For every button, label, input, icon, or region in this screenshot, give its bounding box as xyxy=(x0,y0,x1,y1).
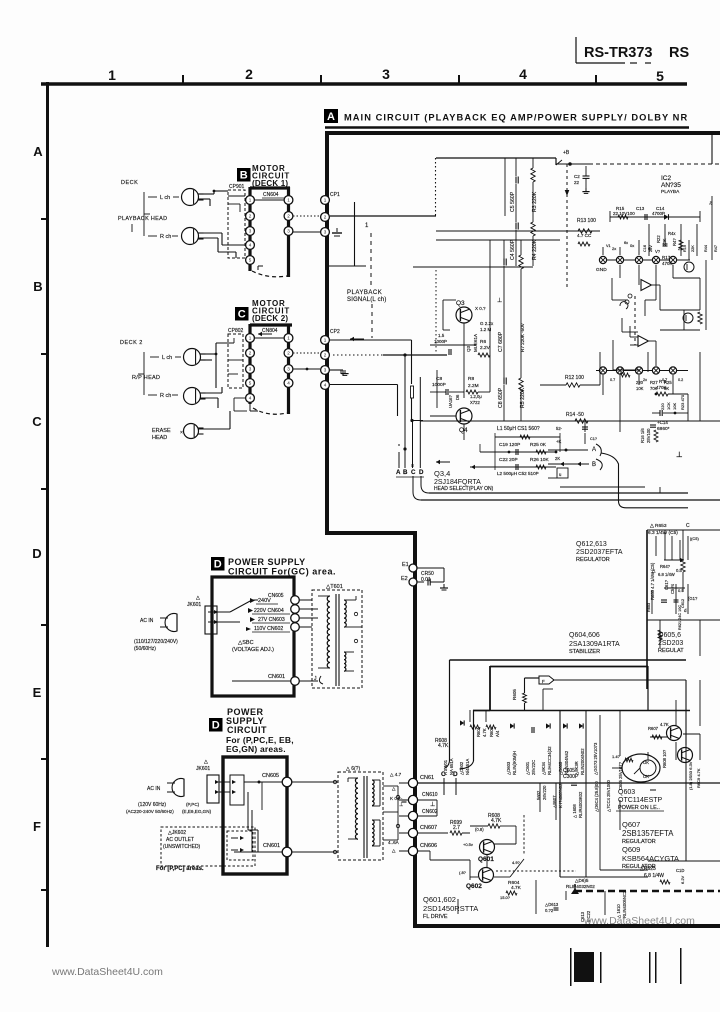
frame tick E-F xyxy=(41,758,47,760)
svg-text:C: C xyxy=(411,469,416,476)
svg-text:C: C xyxy=(32,414,42,429)
svg-text:2K: 2K xyxy=(555,456,560,461)
wire CN604-CP1 dashed xyxy=(293,215,320,217)
svg-text:22K: 22K xyxy=(662,238,667,246)
inductor L1 label xyxy=(497,426,540,432)
svg-text:L1 50μH CS1 560?: L1 50μH CS1 560? xyxy=(497,426,540,432)
svg-text:R12 100: R12 100 xyxy=(565,375,584,381)
svg-text:×: × xyxy=(180,430,183,436)
playback head R deck1 xyxy=(182,228,204,245)
wire CP1-eq run xyxy=(330,215,436,217)
svg-text:Q601: Q601 xyxy=(478,856,494,863)
svg-text:1.5: 1.5 xyxy=(438,333,445,338)
svg-text:E2: E2 xyxy=(401,576,408,582)
connector CP901 pin 2 xyxy=(246,212,255,221)
connector CN804 pin 3 xyxy=(284,365,293,374)
wire C4R4 rails xyxy=(516,216,533,266)
grid letter D xyxy=(32,546,41,561)
wire CP2 pin2 run xyxy=(383,353,447,356)
wire Q3 net xyxy=(430,300,476,352)
svg-text:2: 2 xyxy=(287,351,290,356)
main circuit box outline xyxy=(327,133,720,926)
frame tick A-B xyxy=(41,218,47,220)
grid number 2 xyxy=(245,66,253,82)
barcode square xyxy=(574,952,594,982)
wire eq right vert xyxy=(555,158,557,165)
wire reg verts xyxy=(600,666,648,870)
svg-text:R16 1/6: R16 1/6 xyxy=(640,428,645,443)
svg-text:Q605,6: Q605,6 xyxy=(658,632,681,639)
svg-text:OK: OK xyxy=(643,760,649,765)
frame tick B-C xyxy=(41,353,47,355)
connector CN804 pin 1 xyxy=(284,334,293,343)
wire CN607 run xyxy=(417,832,448,834)
svg-text:CIRCUIT For(GC) area.: CIRCUIT For(GC) area. xyxy=(228,567,336,577)
wire IC2 top net xyxy=(610,211,700,222)
svg-text:R653: R653 xyxy=(647,603,651,612)
wire bottom Q4 drops xyxy=(582,352,700,444)
connector CN606 xyxy=(399,843,437,856)
svg-text:3: 3 xyxy=(324,230,327,235)
border frame top ruler xyxy=(41,82,687,85)
svg-text:10K: 10K xyxy=(672,403,677,410)
connector CP901 outline xyxy=(228,184,245,258)
power supply D2 title xyxy=(226,707,294,754)
svg-text:R64?: R64? xyxy=(660,564,671,569)
D1 taps xyxy=(246,598,255,631)
connector CN604 D1 xyxy=(291,605,300,614)
svg-text:220V CN604: 220V CN604 xyxy=(254,608,284,614)
connector CN604 pin 3 xyxy=(284,227,293,236)
svg-text:D: D xyxy=(419,469,424,476)
svg-text:3: 3 xyxy=(324,368,327,373)
wire power run3 xyxy=(553,680,686,745)
connector CP2 pin 1 xyxy=(321,336,330,345)
svg-text:CP901: CP901 xyxy=(229,184,245,190)
capacitor C605 label xyxy=(563,760,579,800)
wire CN601 D1 xyxy=(232,680,291,682)
T601 J-hook xyxy=(314,676,323,684)
svg-text:3: 3 xyxy=(382,66,390,82)
svg-text:AC IN: AC IN xyxy=(147,786,161,792)
svg-text:△D613: △D613 xyxy=(545,902,559,907)
capacitor C8b xyxy=(498,378,506,409)
svg-text:B: B xyxy=(240,170,248,182)
connector CP2 pin 4 xyxy=(321,381,330,390)
Q607 group label xyxy=(622,820,679,870)
svg-text:R6: R6 xyxy=(480,339,486,345)
connector CP802 pin 1 xyxy=(246,334,255,343)
connector CN607 xyxy=(399,825,437,838)
op-amp U2 xyxy=(638,336,656,347)
svg-text:+0.5v: +0.5v xyxy=(463,842,473,847)
wire CP2 dotted run xyxy=(333,354,383,356)
svg-text:C8: C8 xyxy=(436,376,442,382)
svg-text:27V CN603: 27V CN603 xyxy=(258,617,285,623)
svg-text:1: 1 xyxy=(108,67,116,83)
component labels Q3 bias xyxy=(466,306,494,352)
wire power run2 xyxy=(490,666,648,710)
wire CN61 run xyxy=(417,782,720,784)
playback head L deck1 xyxy=(182,189,204,206)
power supply D1 frame xyxy=(212,577,294,696)
D2 inner wires xyxy=(248,782,262,852)
deck2 text RP HEAD xyxy=(132,375,160,381)
svg-text:K I?4005N02: K I?4005N02 xyxy=(558,783,563,808)
svg-text:4.7 CC: 4.7 CC xyxy=(577,233,592,238)
svg-text:SIGNAL(L ch): SIGNAL(L ch) xyxy=(347,297,387,303)
svg-text:(1.8) 2SB3 6.3V: (1.8) 2SB3 6.3V xyxy=(688,761,693,790)
svg-text:6x: 6x xyxy=(624,241,628,245)
svg-text:+K: +K xyxy=(556,439,561,444)
svg-text:CN601: CN601 xyxy=(263,843,280,849)
svg-text:EG,GN) areas.: EG,GN) areas. xyxy=(226,744,286,754)
svg-text:C7 680P: C7 680P xyxy=(498,331,504,352)
IC2 pin row wire xyxy=(600,259,690,261)
svg-text:2: 2 xyxy=(249,351,252,356)
dashed vert opamp xyxy=(625,294,635,345)
svg-text:C5?4: C5?4 xyxy=(670,583,675,594)
wire deck1 to pins xyxy=(218,196,245,258)
svg-text:E: E xyxy=(33,685,42,700)
connector CP802 pin 5 xyxy=(246,379,255,388)
svg-text:22: 22 xyxy=(574,180,580,185)
barcode bar 4 xyxy=(655,952,657,983)
transistor Q4 xyxy=(456,408,472,424)
svg-text:E1: E1 xyxy=(402,562,409,568)
svg-text:R25: R25 xyxy=(664,380,672,385)
svg-text:1: 1 xyxy=(324,338,327,343)
svg-text:6.8 1/4W: 6.8 1/4W xyxy=(658,572,675,577)
svg-text:4: 4 xyxy=(287,381,290,386)
transformer T601 primary xyxy=(318,596,330,668)
svg-text:△ 4.7: △ 4.7 xyxy=(390,772,402,777)
node plus-B xyxy=(556,150,570,165)
connector CP1 label xyxy=(330,192,340,198)
svg-text:△ R653: △ R653 xyxy=(650,523,667,529)
IC2 pin 1 xyxy=(599,256,606,263)
svg-text:R8: R8 xyxy=(468,376,474,382)
wire deck2 pins xyxy=(228,338,247,411)
svg-text:C8 650P: C8 650P xyxy=(498,387,504,408)
resistor R5 xyxy=(519,378,526,408)
svg-text:V1: V1 xyxy=(606,244,611,248)
arrow into CP2 xyxy=(350,337,364,342)
svg-text:Q3: Q3 xyxy=(466,345,471,352)
transformer T601 dashed box xyxy=(312,584,362,688)
svg-text:Q603: Q603 xyxy=(618,789,635,796)
svg-text:(G1?: (G1? xyxy=(688,596,698,601)
svg-text:0.2: 0.2 xyxy=(678,378,683,382)
deck2 text ERASE HEAD xyxy=(152,428,171,441)
svg-text:CN605: CN605 xyxy=(268,593,284,599)
svg-text:1000P: 1000P xyxy=(434,339,447,344)
transistor Q602 xyxy=(466,868,494,891)
wire CP2 pin3 stub xyxy=(330,370,343,376)
svg-text:1: 1 xyxy=(249,336,252,341)
resistor R699 xyxy=(450,820,470,835)
right edge vert 2 xyxy=(705,260,707,330)
svg-text:A: A xyxy=(592,447,596,453)
motor circuit B frame xyxy=(250,187,290,277)
connector CP901 pin 3 xyxy=(246,227,255,236)
svg-text:POWER ON LE..: POWER ON LE.. xyxy=(618,805,660,811)
connector CN604 pin 1 xyxy=(284,196,293,205)
svg-text:R605: R605 xyxy=(512,689,517,700)
svg-text:(UNSWITCHED): (UNSWITCHED) xyxy=(163,844,201,850)
component labels mid cluster xyxy=(536,761,623,818)
svg-text:C2: C2 xyxy=(574,174,580,179)
head select bus A xyxy=(398,444,400,468)
svg-text:△D603: △D603 xyxy=(506,761,511,775)
svg-text:3: 3 xyxy=(287,229,290,234)
erase head deck2 xyxy=(180,424,204,439)
svg-text:RS: RS xyxy=(669,45,689,61)
resistor R14 xyxy=(566,412,588,423)
connector CN804 pin 4 xyxy=(284,379,293,388)
wire CN601-T2 xyxy=(292,850,338,853)
svg-text:C16: C16 xyxy=(643,245,647,252)
barcode bar 5 xyxy=(680,948,682,984)
IC2 row2 pin 1 xyxy=(599,367,606,374)
svg-text:220: 220 xyxy=(660,403,665,410)
component D6 labels xyxy=(448,394,482,408)
resistor R3 xyxy=(531,168,538,212)
power supply D2 label box xyxy=(209,718,223,732)
svg-text:2SA1309A1RTA: 2SA1309A1RTA xyxy=(569,641,620,648)
svg-text:N/4651A: N/4651A xyxy=(465,758,470,775)
wire C7R7 rails xyxy=(504,240,521,300)
resistor R625 xyxy=(640,866,685,884)
wire eq second vert xyxy=(355,202,370,266)
capacitor C6 cluster xyxy=(434,333,451,355)
svg-text:1.2,0μ: 1.2,0μ xyxy=(470,394,482,399)
wire CN602 run xyxy=(417,800,437,816)
svg-text:G 2.2x: G 2.2x xyxy=(480,321,494,326)
playback signal label xyxy=(347,290,387,303)
wire C5R3 rails xyxy=(505,158,533,216)
svg-text:B: B xyxy=(592,462,596,468)
capacitor C21 +B xyxy=(574,166,590,193)
AC IN voltage D2 xyxy=(126,802,212,814)
svg-text:RLIN4005NC2: RLIN4005NC2 xyxy=(622,890,627,918)
wire pins drops xyxy=(603,240,682,300)
T601 right stubs xyxy=(354,596,362,643)
svg-text:C22 20P: C22 20P xyxy=(499,457,518,463)
svg-text:CN601: CN601 xyxy=(268,674,285,680)
svg-text:0.5: 0.5 xyxy=(678,588,684,593)
bottom small cluster xyxy=(458,878,627,922)
svg-text:D: D xyxy=(214,559,222,571)
deck2 text L ch xyxy=(150,355,181,361)
svg-text:110V CN602: 110V CN602 xyxy=(254,626,283,632)
power supply D1 label box xyxy=(211,557,225,571)
resistor R604 xyxy=(500,880,522,900)
head select bus labels xyxy=(396,469,424,476)
frame tick D-E xyxy=(41,624,47,626)
long run 2 xyxy=(421,499,720,501)
svg-text:A: A xyxy=(33,144,43,159)
svg-text:OK: OK xyxy=(643,774,649,779)
IC2 pin 2 xyxy=(616,256,623,263)
connector CN605 D1 xyxy=(268,593,299,604)
grid letter E xyxy=(33,685,42,700)
svg-text:X 0.?: X 0.? xyxy=(475,306,486,311)
right col density xyxy=(606,224,697,256)
svg-text:GND: GND xyxy=(596,267,607,273)
svg-text:1000P: 1000P xyxy=(432,382,446,388)
svg-text:Q3,4: Q3,4 xyxy=(434,469,450,478)
head select bus B xyxy=(403,355,406,468)
svg-text:AC IN: AC IN xyxy=(140,618,154,624)
wire deck2 stub pin4 xyxy=(250,403,258,411)
svg-text:R621 24C 10C: R621 24C 10C xyxy=(678,605,682,630)
R17 label xyxy=(662,255,673,266)
resistor R12 xyxy=(540,375,600,387)
svg-text:RLIR4003K02: RLIR4003K02 xyxy=(578,791,583,818)
R27 R25 labels xyxy=(636,380,672,391)
svg-text:C: C xyxy=(686,523,690,529)
svg-text:R14 -50: R14 -50 xyxy=(566,412,584,418)
transformer T601 core xyxy=(336,594,339,686)
wire mid run2 xyxy=(436,233,592,246)
svg-text:JK601: JK601 xyxy=(187,602,201,608)
connector CP2 pin 2 xyxy=(321,351,330,360)
svg-text:2SJ184FQRTA: 2SJ184FQRTA xyxy=(434,479,481,486)
resistor R605b xyxy=(435,738,449,749)
AC IN plug D2 xyxy=(147,779,184,797)
svg-text:6.3 1/4W (C5): 6.3 1/4W (C5) xyxy=(648,530,678,536)
transformer T2 sec1 xyxy=(372,780,380,806)
svg-text:|(C5): |(C5) xyxy=(690,536,699,541)
svg-text:R/P HEAD: R/P HEAD xyxy=(132,375,160,381)
svg-text:6.2V: 6.2V xyxy=(680,875,685,884)
wire CN804-CP2 pin3 xyxy=(293,368,320,371)
svg-text:MUE61A: MUE61A xyxy=(473,334,478,352)
wire CN605 D2 xyxy=(244,781,282,784)
svg-text:25V: 25V xyxy=(649,245,653,252)
wire Q4 row xyxy=(420,420,720,422)
svg-text:△: △ xyxy=(392,848,396,853)
wire pin right net xyxy=(673,196,718,310)
svg-text:5: 5 xyxy=(656,68,664,84)
svg-text:5: 5 xyxy=(249,258,252,263)
connector CN601 D1 xyxy=(268,674,299,685)
AC IN plug D1 xyxy=(140,614,177,632)
capacitor C19 xyxy=(499,442,547,448)
svg-text:△D6)5: △D6)5 xyxy=(575,878,589,883)
barcode bar 3 xyxy=(649,952,651,983)
header model RS (cut) xyxy=(669,45,689,61)
motor circuit C label box xyxy=(235,307,249,321)
svg-text:NA 651A: NA 651A xyxy=(449,758,454,775)
connector CN602b xyxy=(399,809,438,821)
svg-text:(50/60Hz): (50/60Hz) xyxy=(134,646,156,652)
wire +B dashed xyxy=(556,162,720,166)
motor circuit C title xyxy=(252,299,290,323)
connector CP901 pin 4 xyxy=(246,241,255,250)
svg-text:4: 4 xyxy=(519,66,527,82)
svg-text:L ch: L ch xyxy=(160,195,170,201)
svg-text:Q4: Q4 xyxy=(459,427,468,434)
title block A xyxy=(324,109,338,123)
thick dashed power rail xyxy=(575,884,720,891)
svg-text:REGULAT: REGULAT xyxy=(658,648,684,654)
connector CN603 D1 xyxy=(291,614,300,623)
svg-text:REGULATOR: REGULATOR xyxy=(576,557,610,563)
wire Q602 base net xyxy=(470,871,576,877)
svg-text:2x: 2x xyxy=(612,246,616,251)
deck1 text L ch xyxy=(148,195,179,201)
wire headL-cp901 deck1 xyxy=(198,191,214,206)
wire right y861 xyxy=(648,860,720,862)
capacitor C7 xyxy=(498,259,506,353)
capacitor +C14 xyxy=(650,420,670,432)
filter row3 xyxy=(470,464,556,470)
svg-text:52-: 52- xyxy=(556,426,563,431)
svg-text:R4x: R4x xyxy=(668,231,676,236)
svg-text:R ch: R ch xyxy=(160,234,171,240)
svg-text:Q3: Q3 xyxy=(456,300,465,307)
svg-text:2.2V: 2.2V xyxy=(480,345,491,351)
deck2 text DECK 2 xyxy=(120,340,143,346)
svg-text:(.8?: (.8? xyxy=(459,870,467,875)
jack JK601 D2 xyxy=(196,759,219,803)
wire power top hook C xyxy=(445,660,450,768)
transistor Q3 xyxy=(456,307,472,323)
svg-text:4.7K: 4.7K xyxy=(438,743,449,749)
jack JK602 caption xyxy=(156,866,204,872)
capacitor C5 xyxy=(510,177,518,213)
svg-text:R22: R22 xyxy=(656,235,661,243)
deck2 bracket xyxy=(138,352,144,395)
svg-text:(120V 60Hz): (120V 60Hz) xyxy=(138,802,166,808)
svg-text:15.0?: 15.0? xyxy=(500,895,511,900)
svg-text:5: 5 xyxy=(249,381,252,386)
vertical cluster left power xyxy=(0,0,1,1)
svg-text:4: 4 xyxy=(249,396,252,401)
diode cluster D2 xyxy=(388,772,407,853)
wire eq left vert dotted xyxy=(435,158,437,216)
svg-text:RLIH4CC34(32: RLIH4CC34(32 xyxy=(547,746,552,775)
connector CP2 label xyxy=(330,329,340,335)
wire C8R5 mid xyxy=(497,297,521,378)
title underline xyxy=(325,126,689,128)
svg-text:4.9?: 4.9? xyxy=(512,860,521,865)
IC2 pin 5 xyxy=(669,256,676,263)
IC2 pin 3 xyxy=(635,256,642,263)
node B arrow xyxy=(560,459,602,470)
svg-text:CP1: CP1 xyxy=(330,192,340,198)
wire eq top run xyxy=(436,157,556,159)
wires CN-T601 xyxy=(299,600,318,681)
svg-text:CN607: CN607 xyxy=(420,825,437,831)
svg-text:3: 3 xyxy=(249,367,252,372)
svg-text:△: △ xyxy=(204,759,208,765)
svg-text:C300P: C300P xyxy=(563,774,579,780)
svg-text:A SW01: A SW01 xyxy=(443,759,448,775)
svg-text:2.2M: 2.2M xyxy=(468,383,479,389)
wire headR-cp901 deck1 xyxy=(198,233,222,238)
resistor R8 label xyxy=(466,376,490,394)
svg-text:△: △ xyxy=(652,568,656,573)
svg-text:△ 1608: △ 1608 xyxy=(572,804,577,818)
svg-text:C1?: C1? xyxy=(590,437,597,441)
wire power jog D xyxy=(473,710,490,712)
svg-text:22K: 22K xyxy=(691,245,695,252)
grid number 4 xyxy=(519,66,527,82)
transistor Q11 xyxy=(683,313,693,323)
